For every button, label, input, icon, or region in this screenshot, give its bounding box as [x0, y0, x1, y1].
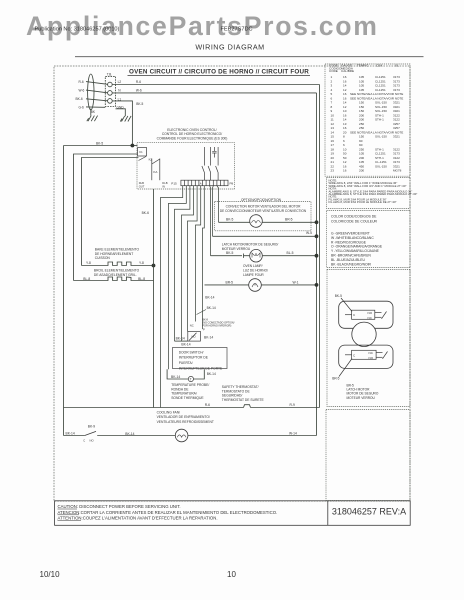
door switch caption: [179, 350, 223, 370]
oven lamp wires: [205, 284, 317, 286]
svg-text:BL-8: BL-8: [138, 277, 145, 281]
color code box: [327, 211, 411, 268]
wire BK-6 left of harness: [86, 99, 108, 101]
svg-text:GND: GND: [117, 105, 125, 109]
svg-text:WIRING DIAGRAM: WIRING DIAGRAM: [195, 43, 264, 52]
svg-text:BK-9: BK-9: [88, 424, 95, 428]
door switch caption box: [173, 348, 228, 369]
svg-text:BK-5: BK-5: [226, 251, 233, 255]
svg-text:KA: KA: [153, 170, 158, 174]
wire door switch common: [175, 340, 188, 342]
svg-text:Y-8: Y-8: [86, 261, 91, 265]
svg-text:BL-8: BL-8: [83, 277, 90, 281]
svg-text:10/10: 10/10: [40, 570, 61, 579]
svg-text:OUT: OUT: [139, 184, 145, 188]
wire into EOC K1: [132, 145, 137, 147]
svg-text:C: C: [353, 353, 356, 357]
terminal block labels: [96, 72, 144, 145]
svg-text:200: 200: [359, 169, 364, 173]
K2 output wire to left: [82, 158, 139, 266]
svg-text:IN: IN: [162, 184, 165, 188]
wire R-6 left of harness: [86, 82, 108, 85]
svg-text:R-6: R-6: [136, 80, 141, 84]
svg-text:BK-5: BK-5: [226, 218, 233, 222]
svg-text:N: N: [118, 89, 121, 93]
svg-text:BR-5: BR-5: [285, 218, 293, 222]
svg-text:ATENCION:CORTAR LA CORRIENTE A: ATENCION:CORTAR LA CORRIENTE ANTES DE RE…: [58, 510, 278, 515]
svg-text:MOTEUR VERROU: MOTEUR VERROU: [347, 396, 376, 400]
latch motor detail: upper switch housing: [339, 301, 393, 328]
wire gauge table rows: [331, 75, 404, 173]
svg-text:INTERRUPTOR DE: INTERRUPTOR DE: [179, 356, 209, 360]
wire W-5: [213, 235, 317, 237]
EOC capacitor symbol: [212, 147, 216, 158]
empty lower right box: [326, 410, 410, 501]
svg-text:DLB: DLB: [139, 181, 144, 185]
EOC internal contact arrows: [202, 147, 218, 180]
page footer: [40, 570, 237, 579]
wire gauge table header: [329, 64, 399, 74]
svg-text:DE HORNEAR/ELEMENT: DE HORNEAR/ELEMENT: [95, 252, 133, 256]
svg-text:Y-8: Y-8: [139, 261, 144, 265]
svg-text:W-6: W-6: [79, 89, 85, 93]
svg-text:BK: BK: [91, 110, 96, 114]
connector strip P15-P8: [181, 180, 228, 186]
oven lamp: [249, 279, 262, 292]
svg-text:STH-1: STH-1: [375, 118, 384, 122]
bus W right vertical: [316, 93, 318, 436]
bake element wire and heater symbol: [82, 262, 154, 266]
node L1-EOC junction: [131, 144, 135, 148]
svg-text:LATCH MOTOR/MOTOR DE SEGURO/: LATCH MOTOR/MOTOR DE SEGURO/: [222, 242, 279, 246]
svg-text:T.B.: T.B.: [107, 72, 113, 76]
svg-text:THERMOSTAT DE SURETE: THERMOSTAT DE SURETE: [222, 398, 265, 402]
svg-text:BAKE ELEMENT/ELEMENTO: BAKE ELEMENT/ELEMENTO: [95, 247, 140, 251]
ground pigtail below harness: [90, 109, 92, 116]
latch motor: [250, 249, 263, 262]
svg-text:L2: L2: [118, 80, 122, 84]
DLB OUT / DLB IN labels: [139, 181, 168, 189]
svg-text:BR-5: BR-5: [226, 280, 234, 284]
svg-text:COMMANDE FOUR ELECTRONIQUE (ES: COMMANDE FOUR ELECTRONIQUE (ES 300): [157, 136, 228, 140]
svg-text:Y -YELLOW/AMARILLO/JAUNE: Y -YELLOW/AMARILLO/JAUNE: [331, 249, 380, 253]
svg-text:VENTILATEURS REFROIDISSEMENT: VENTILATEURS REFROIDISSEMENT: [157, 420, 214, 424]
cooling fan wire right: [188, 435, 317, 437]
electronic oven control caption: [157, 128, 228, 140]
svg-text:G -GREEN/VERDE/VERT: G -GREEN/VERDE/VERT: [331, 232, 370, 236]
svg-text:BK-5: BK-5: [96, 142, 103, 146]
safety thermostat caption: [222, 385, 265, 402]
svg-text:BK-6: BK-6: [142, 211, 149, 215]
svg-text:W -WHITE/BLANCO/BLANC: W -WHITE/BLANCO/BLANC: [331, 236, 374, 240]
svg-text:SONDE THERMIQUE: SONDE THERMIQUE: [171, 396, 204, 400]
svg-text:DLB: DLB: [162, 181, 167, 185]
svg-text:DOOR SWITCH/: DOOR SWITCH/: [179, 350, 204, 354]
publication number line: [35, 27, 253, 33]
caution box: [55, 501, 411, 526]
svg-text:NO: NO: [369, 356, 374, 360]
svg-text:CAUTION: DISCONNECT POWER BEFO: CAUTION: DISCONNECT POWER BEFORE SERVICI…: [58, 504, 181, 509]
cooling fan switch labels: [83, 438, 93, 442]
convection motor: [250, 215, 263, 228]
svg-text:W-14: W-14: [289, 431, 297, 435]
latch motor detail box: [327, 270, 410, 407]
svg-text:CSA: CSA: [376, 64, 383, 68]
temperature probe caption: [171, 383, 209, 400]
K1 output wire to left: [74, 154, 138, 281]
svg-text:TEMP/C: TEMP/C: [357, 64, 369, 68]
svg-text:A: A: [200, 182, 202, 186]
svg-text:CALIBRE: CALIBRE: [341, 69, 354, 73]
svg-text:BR-5: BR-5: [332, 377, 339, 381]
door switch upper contact note: [202, 318, 234, 327]
bottom rail with safety thermostat: [64, 405, 320, 408]
svg-text:C: C: [353, 313, 356, 317]
svg-text:LUZ DE HORNO/: LUZ DE HORNO/: [243, 268, 268, 272]
svg-text:BK-5: BK-5: [335, 294, 342, 298]
svg-text:POR HORNO INFERIOR): POR HORNO INFERIOR): [202, 324, 231, 327]
DLB vertical wire: [153, 189, 155, 408]
cooling fan caption: [157, 410, 214, 423]
svg-text:NO: NO: [368, 311, 373, 315]
svg-text:FIL AWG 8, MUR 3/64 POUR LE MO: FIL AWG 8, MUR 3/64 POUR LE MODULE DE 27…: [329, 200, 397, 204]
latch motor detail caption: [347, 383, 379, 400]
svg-text:16: 16: [343, 169, 347, 173]
cooling fan wire labels: [66, 431, 297, 436]
svg-text:BK-14: BK-14: [171, 375, 180, 379]
svg-text:NC: NC: [369, 351, 374, 355]
svg-text:R -RED/ROJO/ROUGE: R -RED/ROJO/ROUGE: [331, 240, 367, 244]
latch motor detail: lower switch housing: [339, 345, 393, 368]
svg-text:P8: P8: [230, 182, 234, 186]
broil element wire and heater symbol: [74, 277, 154, 281]
svg-text:LAMPE FOUR: LAMPE FOUR: [243, 273, 264, 277]
relay KA contacts: [152, 159, 160, 181]
svg-text:MG78: MG78: [393, 169, 402, 173]
svg-text:DE ASADO/ELEMENT GRIL.: DE ASADO/ELEMENT GRIL.: [94, 273, 137, 277]
wire G-6 left of harness: [86, 106, 105, 108]
cooling fan switch: [85, 431, 96, 435]
svg-text:COLOR/CODE DE COULEUR: COLOR/CODE DE COULEUR: [331, 220, 378, 224]
wire L1 to EOC: [112, 101, 132, 146]
pin stub wires below connector: [161, 186, 219, 408]
svg-text:BK-14: BK-14: [125, 432, 134, 436]
convection motor wires: [219, 221, 317, 223]
terminal block dashed box: [105, 76, 115, 106]
bake element caption: [95, 247, 140, 260]
svg-text:P: P: [203, 328, 205, 332]
notes box: [327, 178, 418, 209]
svg-text:3321: 3321: [393, 135, 400, 139]
node W5-bus: [315, 234, 319, 238]
svg-text:Publication No: 318046257 (001: Publication No: 318046257 (0010): [35, 27, 120, 33]
svg-text:ALAMBRE AWG 8, STYLE 3/64 PARA: ALAMBRE AWG 8, STYLE 3/64 PARA PARED PAR…: [329, 192, 418, 196]
svg-text:K1: K1: [139, 150, 143, 154]
svg-text:318046257 REV:A: 318046257 REV:A: [332, 506, 406, 516]
svg-text:BROIL ELEMENT/ELEMENTO: BROIL ELEMENT/ELEMENTO: [94, 268, 140, 272]
latch motor detail: lower switch: [345, 350, 388, 359]
terminal N: [108, 91, 113, 96]
svg-text:BK -BLACK/NEGRO/NOIR: BK -BLACK/NEGRO/NOIR: [331, 262, 372, 266]
svg-text:INTERRUPTEUR DE PORTE: INTERRUPTEUR DE PORTE: [179, 366, 223, 370]
door switch body: [188, 331, 201, 341]
cooling fan wire middle: [97, 435, 175, 437]
svg-text:BK-6: BK-6: [76, 97, 83, 101]
latch motor caption: [222, 242, 279, 251]
svg-text:R-6: R-6: [79, 80, 84, 84]
latch motor wires: [211, 254, 317, 258]
temperature probe loop: [167, 369, 204, 379]
node latch-bus: [315, 254, 319, 258]
harness grommet ellipse: [88, 74, 94, 110]
svg-text:BK-14: BK-14: [204, 335, 213, 339]
svg-text:R-9: R-9: [290, 403, 295, 407]
svg-text:BR -BROWN/CAFE/BRUN: BR -BROWN/CAFE/BRUN: [331, 254, 371, 258]
bus L1 left vertical: [63, 146, 65, 436]
wire gauge table box: [325, 64, 410, 176]
latch motor detail: motor: [352, 322, 376, 346]
cooling fan motor: [175, 429, 188, 442]
ground symbol right: [120, 116, 131, 122]
svg-text:BK-14: BK-14: [205, 295, 214, 299]
GND stub wire: [116, 109, 126, 116]
svg-text:NC: NC: [190, 323, 194, 327]
svg-text:NO: NO: [192, 335, 196, 339]
svg-text:WIRE AWG 8, 3/64" WALL FOR 3/4: WIRE AWG 8, 3/64" WALL FOR 3/4" AND 1" M…: [329, 184, 407, 188]
outer drawing frame: [54, 66, 410, 501]
wire W-6 top run: [112, 92, 316, 94]
ground symbol left: [87, 116, 98, 122]
svg-text:VENTILADOR DE ENFRIAMIENTO/: VENTILADOR DE ENFRIAMIENTO/: [157, 415, 210, 419]
svg-text:W-1: W-1: [293, 280, 299, 284]
svg-text:NO: NO: [90, 438, 94, 442]
svg-text:COOLING FAN/: COOLING FAN/: [157, 410, 181, 414]
svg-text:BK-14: BK-14: [66, 431, 75, 435]
svg-text:SXL-150: SXL-150: [375, 164, 387, 168]
svg-text:BL -BLUE/AZUL/BLEU: BL -BLUE/AZUL/BLEU: [331, 258, 365, 262]
wire R-6 top run to right bus: [112, 84, 319, 86]
node bake-DLB junction: [152, 264, 156, 268]
svg-text:FEB27S7DC: FEB27S7DC: [221, 27, 253, 33]
svg-text:BK-5: BK-5: [136, 102, 143, 106]
EOC control board dashed box: [137, 143, 235, 189]
heading rule: [75, 56, 424, 58]
svg-text:C: C: [83, 438, 85, 442]
node lamp-bus: [315, 283, 319, 287]
wire BK-5 from node to left bus: [64, 145, 133, 147]
option dashed box: [215, 202, 311, 231]
svg-text:CONVECTION MOTOR VENTILADOR DE: CONVECTION MOTOR VENTILADOR DEL MOTOR: [226, 204, 302, 208]
wire W-6 left of harness: [86, 90, 108, 93]
terminal L1: [108, 99, 113, 104]
latch motor detail: BR-5 lead label: [332, 359, 352, 381]
latch motor detail: BK-5 lead label: [335, 294, 352, 312]
cooling fan wire left: [64, 435, 85, 437]
svg-text:SXL-150: SXL-150: [375, 135, 387, 139]
svg-text:OVEN CIRCUIT // CIRCUITO DE HO: OVEN CIRCUIT // CIRCUITO DE HORNO // CIR…: [129, 68, 309, 75]
harness wire labels: [76, 80, 96, 114]
svg-text:23: 23: [331, 169, 335, 173]
node convection-bus: [315, 220, 319, 224]
terminal L2: [108, 82, 113, 87]
svg-text:O -ORANGE/NARANJA/ORANGE: O -ORANGE/NARANJA/ORANGE: [331, 245, 383, 249]
bus R right vertical: [319, 85, 321, 408]
svg-text:UL: UL: [395, 64, 399, 68]
svg-text:P15: P15: [171, 182, 177, 186]
svg-text:W-6: W-6: [136, 89, 142, 93]
svg-text:OPTION/OPCION/OPTION: OPTION/OPCION/OPTION: [241, 198, 282, 202]
svg-text:DE CONVECCION/MOTEUR VENTILATE: DE CONVECCION/MOTEUR VENTILATEUR CONVECT…: [220, 209, 307, 213]
svg-text:ATTENTION:COUPEZ L'ALIMENTATIO: ATTENTION:COUPEZ L'ALIMENTATION AVANT D'…: [58, 516, 218, 521]
svg-text:10: 10: [227, 570, 236, 579]
svg-text:PUERTA/: PUERTA/: [179, 361, 193, 365]
convection motor caption: [220, 204, 307, 213]
svg-text:BL-5: BL-5: [287, 251, 294, 255]
door switch wire labels: [176, 335, 214, 346]
svg-text:T: T: [190, 377, 192, 381]
svg-text:OVEN LAMP/: OVEN LAMP/: [243, 264, 263, 268]
svg-text:W-5: W-5: [306, 231, 312, 235]
svg-text:CODE: CODE: [329, 69, 338, 73]
svg-text:COLOR CODE/CODIGOS DE: COLOR CODE/CODIGOS DE: [331, 215, 377, 219]
svg-text:BK-14: BK-14: [207, 306, 216, 310]
oven lamp caption: [243, 264, 268, 277]
latch motor detail: upper switch: [345, 310, 387, 319]
svg-text:L1: L1: [118, 97, 122, 101]
svg-text:G-6: G-6: [79, 105, 85, 109]
broil element caption: [94, 268, 140, 276]
svg-text:BK-14: BK-14: [207, 372, 216, 376]
svg-text:BK-14: BK-14: [181, 342, 190, 346]
temperature probe sensor: [188, 376, 193, 381]
relay K1: [137, 148, 147, 161]
svg-text:BK-14: BK-14: [176, 336, 185, 340]
svg-text:CUISSON: CUISSON: [95, 256, 111, 260]
svg-text:R-6: R-6: [205, 403, 210, 407]
